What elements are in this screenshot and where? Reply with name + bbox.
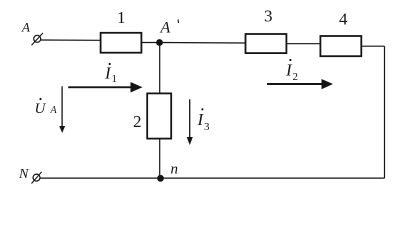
- label I1 with dot: [104, 63, 117, 85]
- resistor R4: [320, 36, 361, 56]
- svg-text:A: A: [50, 105, 58, 116]
- wire node A' down to resistor 2: [159, 43, 161, 94]
- label I3 with dot: [197, 108, 211, 133]
- node A' junction dot: [156, 39, 163, 46]
- svg-text:N: N: [18, 167, 29, 182]
- svg-text:1: 1: [117, 8, 126, 27]
- svg-text:2: 2: [293, 71, 299, 83]
- wire right vertical drop: [384, 46, 386, 178]
- resistor R1: [101, 33, 142, 53]
- svg-text:1: 1: [112, 73, 118, 85]
- wire node A' to resistor 3: [160, 42, 246, 45]
- wire A to resistor 1: [41, 39, 101, 41]
- wire bottom return N to right corner: [40, 177, 384, 179]
- svg-text:4: 4: [339, 10, 348, 29]
- voltage arrow U_A pointing down: [59, 86, 65, 133]
- wire resistor 3 to resistor 4: [286, 43, 320, 45]
- svg-text:n: n: [171, 162, 179, 178]
- current arrow I3 pointing down: [187, 99, 193, 145]
- resistor R3: [246, 34, 287, 53]
- svg-text:A: A: [160, 20, 171, 37]
- svg-text:2: 2: [133, 112, 142, 131]
- terminal N circle with slash: [32, 172, 42, 184]
- label I2 with dot: [285, 59, 298, 83]
- resistor R2: [147, 93, 171, 138]
- label A': [160, 20, 179, 37]
- svg-text:3: 3: [204, 121, 210, 133]
- svg-text:A: A: [21, 20, 30, 35]
- terminal A circle with slash: [32, 33, 43, 45]
- svg-text:3: 3: [264, 7, 273, 26]
- wire resistor 1 to node A': [141, 42, 159, 44]
- node n junction dot: [157, 175, 164, 182]
- wire resistor 2 down to node n: [159, 139, 161, 179]
- current arrow I2: [267, 79, 333, 89]
- wire resistor 4 to right corner: [361, 45, 384, 47]
- current arrow I1: [68, 82, 142, 93]
- label U_A with dot: [35, 98, 58, 117]
- svg-text:U: U: [35, 101, 47, 117]
